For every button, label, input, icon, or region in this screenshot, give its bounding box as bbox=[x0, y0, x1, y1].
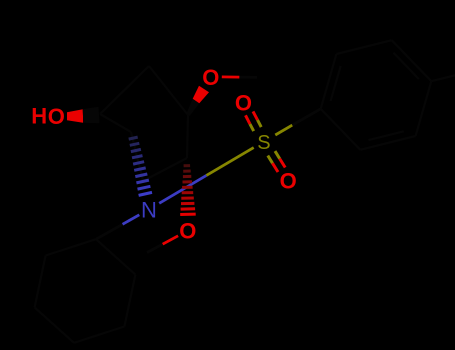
S=O upper double bond bbox=[258, 120, 262, 127]
bond C-OMe bottom hashed wedge bbox=[184, 164, 191, 167]
bond C-OMe top solid wedge bbox=[186, 99, 199, 116]
carbocycle wires bbox=[100, 66, 149, 114]
bond N-cyclohexyl bbox=[123, 215, 140, 225]
S=O lower double bond bbox=[268, 156, 273, 164]
svg-text:O: O bbox=[48, 104, 65, 129]
svg-text:H: H bbox=[31, 104, 47, 129]
bond C-N hashed wedge bbox=[129, 137, 138, 139]
svg-text:O: O bbox=[179, 219, 196, 244]
tolyl ring bbox=[321, 109, 361, 150]
bond O-CH3 top bbox=[222, 76, 240, 79]
svg-text:O: O bbox=[280, 168, 297, 193]
bond C-OH solid wedge bbox=[67, 109, 83, 122]
tolyl methyl bbox=[431, 73, 455, 81]
svg-text:S: S bbox=[257, 132, 270, 154]
cyclohexyl ring bbox=[96, 239, 135, 274]
bond S-aryl bbox=[275, 125, 292, 135]
svg-text:O: O bbox=[235, 90, 252, 115]
bond O-CH3 bottom bbox=[163, 236, 179, 244]
bond N-S bbox=[159, 175, 206, 203]
svg-text:N: N bbox=[141, 197, 157, 222]
svg-text:O: O bbox=[202, 65, 219, 90]
